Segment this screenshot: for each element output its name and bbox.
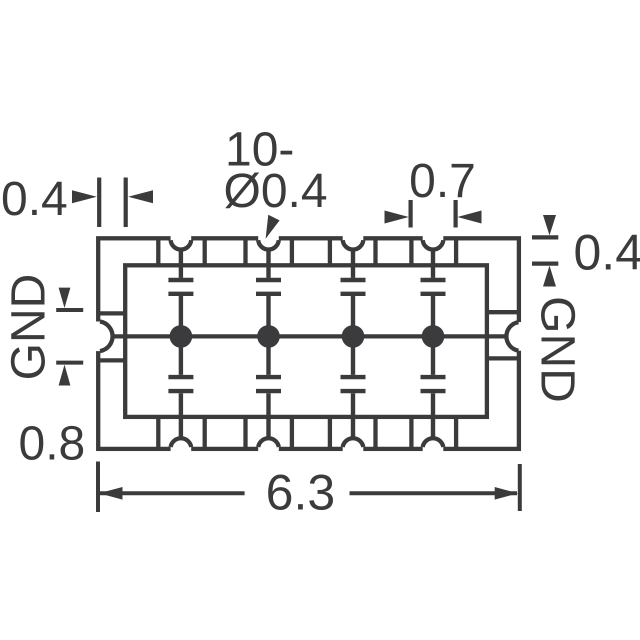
svg-text:GND: GND (3, 274, 56, 381)
castellation hole top 3 (343, 240, 364, 249)
castellation hole bottom 4 (423, 438, 444, 447)
capacitor C1 column (168, 249, 193, 439)
bottom pad separators (156, 417, 160, 449)
notch gap erasers (96, 236, 523, 452)
GND bus center line (113, 334, 505, 338)
GND left dimension ticks (56, 288, 83, 386)
svg-text:6.3: 6.3 (266, 465, 336, 521)
dimension 0.4 top-left (1, 173, 153, 227)
dimension 6.3 bottom (98, 462, 520, 521)
capacitor C3 column (341, 249, 366, 439)
svg-text:0.4: 0.4 (1, 173, 68, 226)
svg-text:0.7: 0.7 (409, 155, 476, 208)
castellation hole top 2 (258, 240, 279, 249)
svg-text:Ø0.4: Ø0.4 (224, 165, 328, 218)
castellation hole bottom 1 (171, 438, 192, 447)
inner electrode outline (125, 265, 487, 417)
top pad separators (156, 238, 160, 265)
right GND pad separators (487, 310, 519, 314)
castellation hole right GND (506, 322, 518, 351)
castellation hole top 4 (423, 240, 444, 249)
capacitor C4 column (421, 249, 446, 439)
label 10-Ø0.4 with leader arrow (224, 124, 328, 239)
castellation hole bottom 2 (258, 438, 279, 447)
outer body outline (98, 238, 519, 449)
svg-text:0.4: 0.4 (574, 225, 640, 281)
dimension 0.4 right side (532, 215, 640, 287)
capacitor element columns (168, 249, 445, 439)
castellation hole left GND (100, 322, 113, 352)
capacitor C2 column (256, 249, 281, 439)
castellation hole top 1 (171, 240, 192, 249)
svg-text:GND: GND (531, 296, 584, 403)
castellation hole bottom 3 (343, 438, 364, 447)
left GND pad separators (98, 311, 125, 315)
dimension 0.7 top-right (385, 155, 482, 228)
svg-text:0.8: 0.8 (19, 418, 86, 471)
